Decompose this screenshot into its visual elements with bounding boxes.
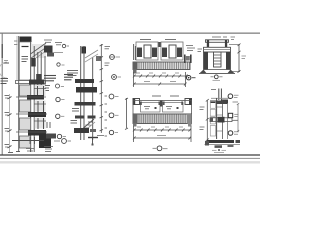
post line b — [83, 46, 85, 140]
window rect 2 — [34, 101, 46, 112]
plan A unit2 outline — [161, 42, 183, 60]
dim end text — [97, 135, 104, 137]
wall mid column lines — [34, 46, 45, 152]
br inner wall line — [222, 100, 224, 139]
plan B dim end verticals — [134, 126, 192, 142]
storey panel 4 — [19, 136, 30, 148]
br right wall line — [227, 103, 229, 139]
plan A right small text — [186, 46, 195, 51]
tr band y47-52 — [204, 47, 231, 52]
plan B label 2 — [170, 95, 179, 97]
plan A unit2 right block — [177, 48, 182, 58]
left text stack y78-85 — [1, 79, 9, 84]
base text left — [26, 149, 34, 152]
plan A dim row1 text — [136, 72, 179, 74]
top border — [0, 32, 260, 34]
plan A label 1 — [140, 39, 151, 41]
left text stack y120-126 — [71, 121, 78, 124]
br right dim line — [237, 103, 239, 132]
br top blob — [221, 100, 228, 105]
step marks — [83, 122, 93, 128]
storey panel 1 — [19, 85, 30, 96]
wall left ticks top — [14, 41, 18, 45]
post line a — [80, 46, 82, 140]
axis bubble y131 — [109, 130, 118, 134]
br square sym y115 — [228, 113, 238, 117]
tr base line — [199, 72, 235, 74]
base text right — [44, 147, 53, 152]
base axis bubble — [62, 139, 71, 144]
tr left text — [198, 49, 203, 52]
tr center ladder — [214, 52, 222, 67]
sym text y46 — [105, 47, 111, 49]
floor slab y97 — [16, 95, 46, 100]
left text stack y70-78 — [67, 71, 78, 76]
tr dim text — [242, 56, 247, 59]
floor slab y132 — [16, 130, 47, 136]
plan A left end bars — [134, 44, 136, 60]
stair diagonal — [80, 119, 95, 132]
br left text 1 — [200, 107, 205, 110]
tr body left bar — [204, 52, 209, 70]
plan A unit2 left block — [162, 48, 167, 58]
mid slab y103 — [75, 102, 96, 106]
gusset diagonal 2 — [85, 54, 98, 62]
tr label bubble — [211, 75, 223, 79]
wall mid dark patch 2 — [36, 74, 42, 82]
br base under marks — [215, 145, 234, 151]
plan A axis bubble right — [187, 76, 196, 80]
wall outer double edge — [16, 36, 18, 80]
br top text — [211, 89, 216, 91]
plan B panel 1 — [141, 103, 161, 113]
left detail bubble arc — [0, 62, 7, 78]
plan A unit1 outline — [136, 42, 158, 60]
left level mark y97.5 — [5, 96, 12, 100]
page background — [0, 0, 260, 194]
mid slab y117 — [75, 116, 96, 119]
gusset diagonal 1 — [85, 50, 98, 58]
plan B center divider — [160, 101, 163, 107]
plan A dim row2 text — [144, 81, 176, 83]
right dim line x126 — [125, 98, 128, 130]
br left dim line — [206, 99, 209, 141]
window rect 1 — [34, 86, 46, 96]
base dark cluster — [39, 134, 51, 148]
bottom border gray line — [0, 157, 260, 159]
plan B left cap — [133, 99, 140, 106]
tr body right bar — [226, 52, 231, 70]
br left wall line — [216, 98, 218, 139]
base dim line — [12, 137, 44, 144]
tr dim vertical — [229, 44, 241, 73]
plan A dim row2 — [133, 83, 187, 86]
wall top header block — [20, 37, 32, 43]
gusset node — [96, 56, 102, 61]
sym text y63 — [105, 63, 110, 65]
wall slab ext blob y135 — [46, 134, 56, 139]
base leader dashdot — [54, 140, 60, 142]
tr top right marks — [231, 37, 236, 40]
wall vert dash pair y122 — [47, 122, 50, 128]
br bubble y96 — [228, 94, 238, 99]
roof diagonal wash — [32, 44, 46, 58]
plan B label 1 — [152, 95, 161, 97]
storey panel 3 — [19, 118, 30, 130]
plan B inner text 2 — [166, 107, 172, 109]
plan A unit1 left block — [137, 48, 142, 58]
br bubble y133 — [228, 131, 239, 136]
wall axis bubble y99 — [56, 97, 65, 101]
plan B panel 2 — [163, 103, 184, 113]
tr base left foot — [200, 70, 207, 74]
tr post right — [225, 40, 227, 48]
plan B dim row2 text — [157, 135, 166, 137]
roof diagonal 1 — [31, 43, 47, 54]
axis bubble y113 — [109, 113, 118, 118]
plan A unit divider mark — [158, 42, 160, 47]
axis bubble y95 — [109, 94, 118, 99]
floor slab y114 — [16, 112, 47, 117]
wall axis bubble y116 — [56, 114, 65, 118]
bottom slab y130 — [74, 128, 96, 133]
br left text 2 — [200, 127, 205, 130]
roof diagonal 3 — [36, 51, 46, 58]
bottom border dark line — [0, 154, 260, 156]
wall outer line — [18, 36, 20, 152]
floor slab y82 — [16, 80, 46, 85]
wall panel text — [22, 57, 29, 62]
plan B inner dots — [155, 107, 179, 109]
slab band y90 — [76, 87, 97, 93]
br base slab — [205, 140, 241, 146]
plan B dim row1 — [133, 129, 191, 132]
left text stack y108-112 — [72, 109, 79, 112]
br left boxes — [210, 102, 215, 137]
plan B main outline — [133, 101, 192, 115]
window zone fill — [35, 85, 46, 129]
post line c — [92, 57, 94, 140]
left level mark y146.5 — [5, 145, 12, 149]
roof leader dash — [54, 52, 63, 54]
plan A label 2 — [165, 39, 176, 41]
br bottom text — [212, 150, 226, 152]
left axis tick y62 — [3, 61, 9, 64]
plan B panel corner marks — [140, 102, 183, 106]
text block left y75-82 — [44, 76, 56, 81]
roof label text upper — [44, 40, 62, 45]
bottom faint band — [0, 161, 260, 163]
wall upper panel — [19, 42, 30, 80]
roof label bubble — [62, 44, 69, 47]
tiny stacked marks y85-92 — [45, 86, 50, 91]
axis bubble y77 — [112, 75, 121, 80]
wall axis bubble y136 — [57, 134, 66, 138]
plan A dim end verticals — [134, 72, 186, 87]
tr top text — [212, 36, 227, 38]
plan A right attach — [185, 55, 191, 64]
roof diagonal 2 — [31, 48, 47, 59]
left border — [1, 33, 3, 155]
post cap — [82, 47, 87, 54]
plan A right attach blob — [186, 56, 190, 61]
wall mid dark patch 1 — [31, 58, 36, 67]
br top posts — [219, 89, 222, 101]
corner tiny marks above border — [8, 152, 20, 153]
left level mark y130.5 — [5, 129, 12, 133]
plan A dim row1 — [133, 75, 188, 78]
tr base right foot — [228, 70, 235, 74]
slab band y81 — [75, 79, 94, 83]
left level mark y114.5 — [5, 113, 12, 117]
tr label text — [213, 79, 221, 81]
left axis line — [9, 94, 11, 152]
mid bubble y64 — [57, 63, 65, 66]
br top joint blob — [216, 101, 227, 105]
br mid band — [210, 117, 232, 123]
br top cap — [210, 98, 230, 103]
tr top bar — [206, 40, 229, 43]
tr body outline — [204, 52, 231, 70]
tee mark under section — [88, 138, 98, 146]
roof node blob — [44, 46, 54, 57]
dim line right of section — [100, 44, 104, 133]
plan B dim row1 text — [137, 126, 183, 128]
plan A unit1 right block — [152, 48, 157, 58]
br center column rungs — [217, 107, 222, 131]
wall inner line — [30, 37, 32, 152]
tr post left — [207, 40, 209, 48]
plan A unit1 center panel — [144, 45, 151, 58]
br cap right dashes — [233, 101, 239, 103]
plan A unit2 center panel — [169, 45, 176, 58]
text block right y75-82 — [64, 75, 73, 80]
tick column x105 — [105, 96, 108, 136]
mid bubble y86 — [56, 84, 65, 88]
plan A hatch band — [133, 62, 190, 74]
plan B dim row2 — [133, 137, 191, 140]
plan B right cap — [185, 99, 192, 106]
plan B title bubble — [153, 146, 168, 151]
br mid band extension — [232, 119, 238, 121]
axis bubble y57 — [110, 55, 121, 60]
storey panel 2 — [19, 100, 30, 112]
plan B hatch band — [133, 114, 192, 127]
window rect 3 — [34, 118, 46, 129]
plan B inner text 1 — [144, 107, 150, 109]
